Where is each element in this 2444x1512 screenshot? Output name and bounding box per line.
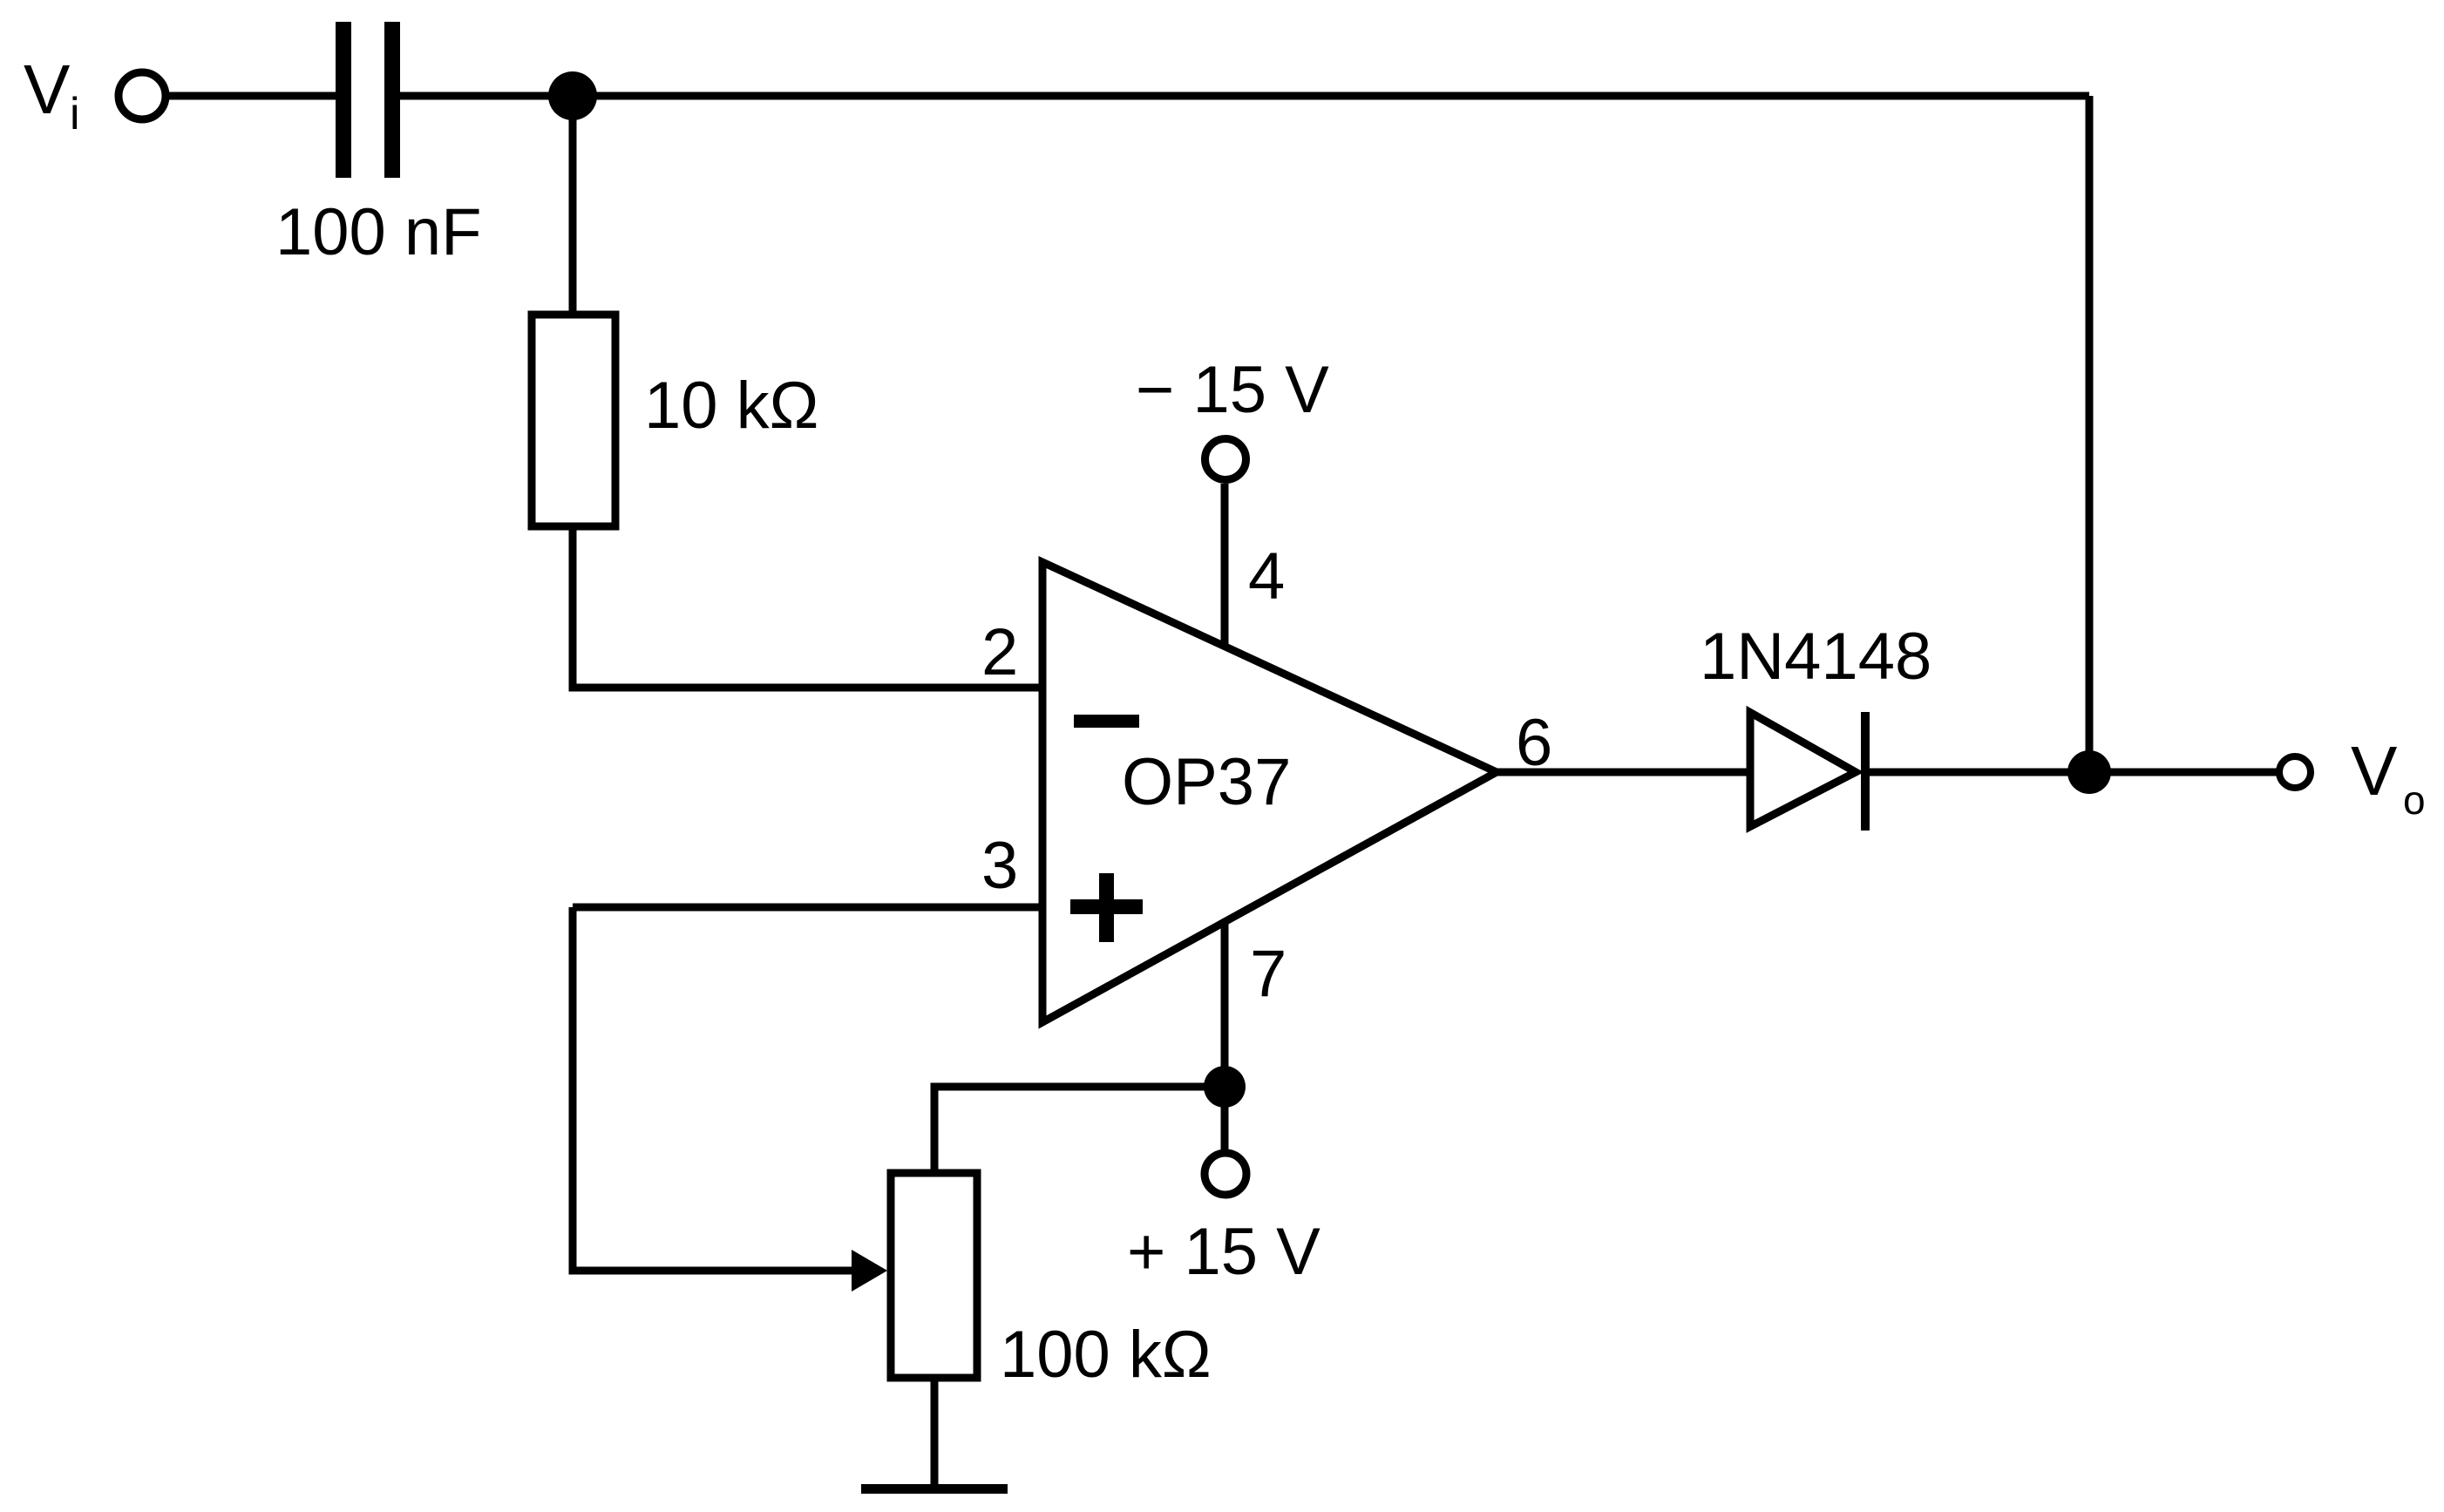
resistor R1 10 kOhm <box>532 315 615 526</box>
wire pin 7 to node B <box>1221 922 1229 1087</box>
wire pin 6 to D1 <box>1497 769 1747 776</box>
wire R1 to pin 2 corner <box>569 526 577 688</box>
node B junction dot <box>1204 1066 1246 1108</box>
svg-text:4: 4 <box>1248 539 1285 614</box>
node C junction dot <box>2067 750 2111 794</box>
wire pot bottom to ground <box>931 1378 939 1487</box>
svg-text:2: 2 <box>981 615 1018 689</box>
capacitor C1 plate 1 <box>336 22 351 178</box>
svg-text:V: V <box>24 51 71 128</box>
potentiometer wiper arrowhead <box>852 1250 887 1292</box>
inverting input minus marker <box>1074 715 1139 728</box>
wire node C to Vo <box>2089 769 2277 776</box>
wire node A down to R1 <box>569 96 577 314</box>
svg-text:V: V <box>2351 732 2398 810</box>
wire Vi to C1 <box>169 92 336 100</box>
svg-text:+ 15 V: + 15 V <box>1127 1215 1320 1289</box>
non-inverting input plus marker <box>1070 873 1143 942</box>
wire node A to feedback corner <box>573 92 2089 100</box>
terminal Vi <box>119 72 166 119</box>
feedback wire down right side <box>2086 96 2094 772</box>
svg-text:6: 6 <box>1516 706 1552 780</box>
wire left vertical to wiper <box>569 907 577 1271</box>
diode D1 triangle <box>1750 713 1856 827</box>
terminal -15V <box>1205 439 1246 480</box>
terminal +15V <box>1205 1153 1246 1195</box>
wire node B to +15V terminal <box>1221 1087 1229 1150</box>
wire wiper horizontal <box>569 1267 859 1275</box>
ground <box>861 1484 1008 1494</box>
svg-text:− 15 V: − 15 V <box>1136 353 1329 427</box>
wire C1 to node A <box>400 92 573 100</box>
wire -15V to pin 4 <box>1221 484 1229 647</box>
wire node B to pot top <box>934 1087 1225 1173</box>
svg-text:100 nF: 100 nF <box>275 195 482 269</box>
svg-text:1N4148: 1N4148 <box>1700 620 1931 694</box>
capacitor C1 plate 2 <box>384 22 400 178</box>
svg-text:o: o <box>2403 777 2426 823</box>
svg-text:10 kΩ: 10 kΩ <box>644 369 818 443</box>
wire pin 3 <box>573 904 1042 912</box>
svg-text:i: i <box>70 89 80 139</box>
node A junction dot <box>548 71 597 120</box>
svg-text:7: 7 <box>1250 937 1286 1011</box>
svg-text:3: 3 <box>981 829 1018 903</box>
terminal Vo <box>2279 756 2311 788</box>
svg-text:OP37: OP37 <box>1122 745 1291 819</box>
op-amp U1 OP37 triangle <box>1042 562 1497 1022</box>
wire pin 2 <box>569 684 1043 692</box>
potentiometer R2 body 100 kOhm <box>891 1173 977 1378</box>
wire D1 to node C <box>1865 769 2089 776</box>
svg-text:100 kΩ: 100 kΩ <box>1000 1318 1212 1392</box>
diode D1 cathode bar <box>1861 712 1870 831</box>
